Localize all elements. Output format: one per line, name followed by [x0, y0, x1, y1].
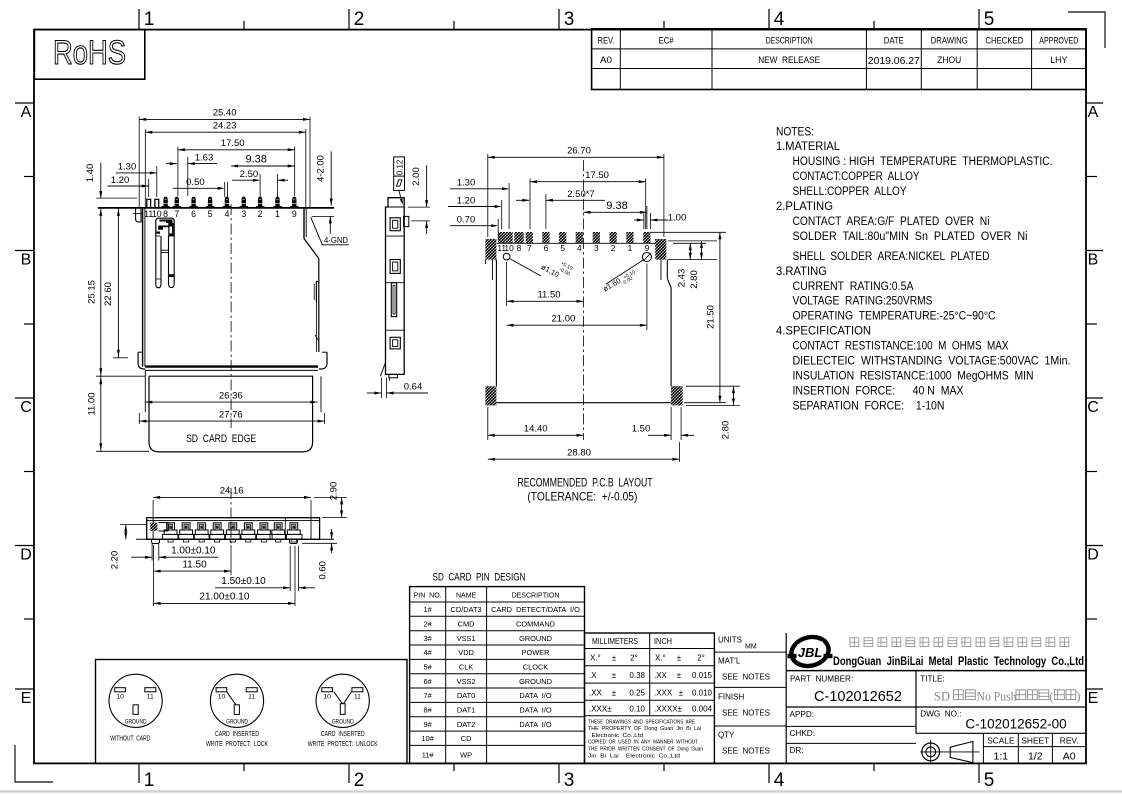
- svg-text:ZHOU: ZHOU: [937, 55, 961, 66]
- svg-text:WRITE PROTECT: UNLOCK: WRITE PROTECT: UNLOCK: [308, 739, 378, 748]
- svg-text:CHKD:: CHKD:: [790, 729, 815, 738]
- svg-text:1#: 1#: [423, 605, 432, 614]
- bottom dim 0.60: [302, 529, 337, 580]
- pcb layout caption: [518, 476, 653, 504]
- pcb dim 1.20: [448, 195, 502, 229]
- svg-text:24.16: 24.16: [220, 486, 244, 497]
- svg-text:JBL: JBL: [798, 645, 823, 660]
- pcb dim 11.50: [507, 262, 584, 306]
- svg-text:11.00: 11.00: [86, 392, 97, 415]
- svg-text:4: 4: [224, 209, 229, 219]
- svg-text:26.36: 26.36: [219, 390, 243, 401]
- switch circle 1: [210, 674, 263, 727]
- side view body: [380, 198, 408, 381]
- svg-text:MM: MM: [745, 644, 757, 651]
- svg-text:DAT1: DAT1: [457, 706, 475, 715]
- svg-text:THESE DRAWINGS AND SPECIFIC: THESE DRAWINGS AND SPECIFICATIONS ARE: [588, 719, 695, 725]
- svg-text:2.50*7: 2.50*7: [567, 189, 594, 200]
- svg-text:2.20: 2.20: [110, 551, 121, 570]
- svg-text:X.°: X.°: [655, 654, 666, 663]
- svg-text:±: ±: [677, 654, 682, 663]
- svg-text:0.015: 0.015: [692, 671, 713, 680]
- svg-text:SEPARATION FORCE: 1-10N: SEPARATION FORCE: 1-10N: [793, 398, 945, 412]
- svg-text:VDD: VDD: [458, 648, 474, 657]
- third angle projection symbol: [920, 740, 979, 763]
- svg-text:1: 1: [275, 209, 280, 219]
- svg-text:1.50: 1.50: [632, 424, 651, 435]
- svg-text:COMMAND: COMMAND: [516, 620, 555, 629]
- svg-text:CHECKED: CHECKED: [985, 35, 1023, 46]
- svg-text:DRAWING: DRAWING: [931, 35, 968, 46]
- svg-text:1: 1: [628, 243, 633, 253]
- svg-text:8#: 8#: [423, 706, 432, 715]
- svg-text:21.50: 21.50: [706, 305, 717, 329]
- svg-text:POWER: POWER: [522, 648, 550, 657]
- switch detail box: [96, 660, 408, 764]
- pcb dim 2.80 bottom: [686, 386, 740, 439]
- svg-text:CMD: CMD: [458, 620, 475, 629]
- svg-text:NAME: NAME: [456, 592, 477, 599]
- svg-text:7: 7: [174, 209, 179, 219]
- svg-text:0.38: 0.38: [629, 671, 645, 680]
- label 4-GND: [311, 217, 349, 245]
- units material finish qty column: [714, 633, 786, 763]
- svg-text:1.00: 1.00: [668, 213, 687, 224]
- svg-text:4-GND: 4-GND: [324, 235, 348, 245]
- svg-text:14.40: 14.40: [524, 424, 548, 435]
- svg-text:VOLTAGE RATING:250VRMS: VOLTAGE RATING:250VRMS: [793, 294, 933, 308]
- svg-text:GROUND: GROUND: [332, 719, 354, 726]
- svg-text:5: 5: [984, 9, 995, 30]
- svg-text:10: 10: [218, 693, 226, 700]
- svg-text:27.76: 27.76: [219, 409, 243, 420]
- svg-text:1.63: 1.63: [195, 152, 214, 163]
- dim 2.50 front: [232, 169, 288, 197]
- svg-text:INCH: INCH: [654, 637, 672, 646]
- svg-text:QTY: QTY: [718, 731, 735, 740]
- svg-text:E: E: [1088, 690, 1099, 707]
- svg-text:3: 3: [564, 770, 575, 791]
- svg-text:1:1: 1:1: [993, 751, 1008, 763]
- switch labels: [110, 729, 377, 748]
- svg-text:SHEET: SHEET: [1021, 736, 1049, 746]
- svg-text:4: 4: [774, 770, 785, 791]
- svg-text:C-102012652-00: C-102012652-00: [965, 717, 1066, 732]
- svg-text:10: 10: [323, 693, 331, 700]
- pcb dim 9.38: [584, 200, 647, 229]
- svg-text:A0: A0: [1063, 751, 1076, 763]
- svg-text:SEE NOTES: SEE NOTES: [722, 709, 770, 718]
- dim 17.50: [178, 138, 295, 196]
- svg-text:Electronic Co.,Ltd: Electronic Co.,Ltd: [588, 733, 643, 739]
- svg-text:FINISH: FINISH: [718, 693, 744, 702]
- svg-text:.XXX±: .XXX±: [589, 704, 612, 713]
- svg-text:A: A: [21, 104, 32, 121]
- svg-text:DIELECTEIC WITHSTANDING VOLT: DIELECTEIC WITHSTANDING VOLTAGE:500VAC 1…: [793, 354, 1071, 368]
- bottom dim 2.20: [110, 525, 148, 570]
- svg-text:PIN NO.: PIN NO.: [414, 592, 442, 599]
- pcb dim 28.80: [488, 442, 680, 462]
- bottom dim 24.16: [153, 486, 311, 517]
- svg-text:B: B: [21, 252, 32, 269]
- svg-text:6: 6: [191, 209, 196, 219]
- svg-text:25.40: 25.40: [213, 108, 237, 119]
- svg-text:3: 3: [241, 209, 246, 219]
- svg-text:E: E: [21, 690, 32, 707]
- svg-text:CONTACT RESTISTANCE:100 M O: CONTACT RESTISTANCE:100 M OHMS MAX: [793, 339, 1009, 353]
- svg-text:INSERTION FORCE: 40 N M: INSERTION FORCE: 40 N MAX: [793, 383, 964, 397]
- svg-text:TITLE:: TITLE:: [920, 675, 945, 684]
- svg-text:1.30: 1.30: [457, 178, 476, 189]
- bottom view body: [136, 518, 334, 540]
- svg-text:SD CARD EDGE: SD CARD EDGE: [186, 433, 256, 445]
- svg-text:17.50: 17.50: [585, 170, 609, 181]
- zone ticks and letters right: [1086, 103, 1103, 707]
- corner trim mark bottom-left: [15, 745, 53, 782]
- svg-text:GROUND: GROUND: [519, 634, 552, 643]
- svg-text:HOUSING : HIGH TEMPERATURE T: HOUSING : HIGH TEMPERATURE THERMOPLASTIC…: [793, 154, 1053, 168]
- dim 25.15: [87, 208, 103, 376]
- svg-text:4: 4: [577, 243, 582, 253]
- appd chkd dr cells: [786, 710, 916, 755]
- svg-text:PART NUMBER:: PART NUMBER:: [790, 675, 853, 684]
- svg-text:21.00: 21.00: [552, 313, 576, 324]
- svg-text:4: 4: [774, 9, 785, 30]
- svg-text:GROUND: GROUND: [519, 677, 552, 686]
- svg-text:25.15: 25.15: [87, 280, 98, 304]
- dim 1.63: [166, 152, 217, 196]
- switch circle 2: [316, 674, 369, 727]
- svg-text:CONTACT:COPPER ALLOY: CONTACT:COPPER ALLOY: [793, 169, 920, 183]
- svg-text:COPIED OR USED IN ANY MAN: COPIED OR USED IN ANY MANNER WITHOUT: [588, 740, 698, 746]
- pcb hole 1.60 with leader: [601, 253, 651, 294]
- svg-text:B: B: [1088, 252, 1099, 269]
- svg-text:2°: 2°: [697, 654, 705, 663]
- svg-text:±: ±: [612, 688, 617, 697]
- pcb dim 2.80 top: [668, 241, 717, 289]
- svg-text:GROUND: GROUND: [125, 719, 147, 726]
- svg-text:9: 9: [645, 243, 650, 253]
- svg-text:1.40: 1.40: [85, 164, 96, 183]
- title block company header: [786, 633, 1086, 670]
- front view center line: [230, 204, 232, 428]
- svg-text:11.50: 11.50: [182, 559, 207, 570]
- pcb layout pads row: [497, 232, 656, 253]
- svg-text:1.20: 1.20: [457, 195, 476, 206]
- svg-text:5: 5: [208, 209, 213, 219]
- svg-text:SEE NOTES: SEE NOTES: [722, 747, 770, 756]
- zone ticks and numerals top: [139, 9, 994, 30]
- svg-text:CARD INSERTED: CARD INSERTED: [321, 729, 365, 738]
- svg-text:10#: 10#: [421, 734, 434, 743]
- svg-text:.X: .X: [589, 671, 597, 680]
- svg-text:2.43: 2.43: [677, 269, 688, 288]
- svg-text:No Push: No Push: [977, 690, 1018, 704]
- svg-text:26.70: 26.70: [567, 145, 591, 156]
- svg-text:LHY: LHY: [1050, 55, 1068, 66]
- svg-text:(TOLERANCE: +/-0.05): (TOLERANCE: +/-0.05): [527, 490, 637, 504]
- svg-text:EC#: EC#: [659, 35, 675, 46]
- svg-text:3: 3: [594, 243, 599, 253]
- svg-text:0.50: 0.50: [186, 177, 205, 188]
- svg-text:2#: 2#: [423, 620, 432, 629]
- svg-text:1.30: 1.30: [118, 162, 137, 173]
- svg-text:.XX: .XX: [589, 688, 603, 697]
- pcb dim 2.50*7: [516, 189, 605, 229]
- svg-text:10: 10: [152, 209, 162, 219]
- svg-text:THE PROPERTY OF Dong Guan: THE PROPERTY OF Dong Guan Jin Bi Lai: [588, 726, 701, 732]
- bottom view mounting feet: [152, 539, 298, 543]
- svg-text:9: 9: [292, 209, 297, 219]
- dim 0.50: [173, 177, 228, 197]
- svg-text:DATA I/O: DATA I/O: [519, 691, 551, 700]
- svg-text:6#: 6#: [423, 677, 432, 686]
- dim 25.40: [139, 108, 310, 208]
- side view flatness control frame: [394, 157, 405, 205]
- svg-text:VSS1: VSS1: [457, 634, 476, 643]
- pcb dim 21.50: [650, 232, 726, 402]
- front view card detect spring contacts: [156, 218, 174, 288]
- svg-text:1.00±0.10: 1.00±0.10: [171, 545, 216, 556]
- svg-text:RECOMMENDED P.C.B LAYOUT: RECOMMENDED P.C.B LAYOUT: [518, 476, 653, 490]
- bottom view contact feet: [162, 523, 302, 542]
- svg-text:6: 6: [544, 243, 549, 253]
- svg-text:11: 11: [147, 693, 154, 700]
- svg-text:THE PRIOR WRITTEN CONSENT: THE PRIOR WRITTEN CONSENT OF Dong Guan: [588, 747, 703, 753]
- svg-text:9.38: 9.38: [245, 153, 266, 165]
- pcb dim 26.70: [488, 145, 664, 237]
- svg-text:NEW RELEASE: NEW RELEASE: [758, 55, 820, 66]
- svg-text:VSS2: VSS2: [457, 677, 476, 686]
- pcb layout corner pads: [485, 239, 682, 405]
- part number cell: [786, 671, 1086, 734]
- dim 1.30 front: [116, 162, 157, 197]
- pcb dim 1.30: [450, 178, 509, 229]
- svg-text:CD/DAT3: CD/DAT3: [451, 605, 482, 614]
- svg-text:3: 3: [564, 9, 575, 30]
- svg-text:1: 1: [144, 770, 155, 791]
- svg-text:1.20: 1.20: [111, 175, 130, 186]
- pcb dim 1.50: [632, 407, 694, 440]
- dim 11.00: [86, 376, 149, 451]
- svg-text:DATA I/O: DATA I/O: [519, 720, 551, 729]
- svg-text:17.50: 17.50: [221, 138, 245, 149]
- dim 24.23: [145, 121, 305, 208]
- svg-text:0.70: 0.70: [457, 215, 476, 226]
- pcb dim 2.43: [673, 243, 706, 287]
- svg-text:8: 8: [163, 209, 168, 219]
- svg-text:0.10: 0.10: [629, 704, 645, 713]
- svg-text:CLK: CLK: [459, 663, 473, 672]
- svg-text:(: (: [1049, 690, 1053, 704]
- svg-text:DESCRIPTION: DESCRIPTION: [512, 592, 560, 599]
- dim 22.60: [103, 208, 128, 358]
- svg-text:INSULATION RESISTANCE:1000 M: INSULATION RESISTANCE:1000 MegOHMS MIN: [793, 369, 1034, 383]
- svg-text:4-2.00: 4-2.00: [316, 155, 327, 182]
- front view pins: [144, 197, 298, 219]
- svg-text:CARD DETECT/DATA I/O: CARD DETECT/DATA I/O: [491, 605, 580, 614]
- svg-text:MAT'L: MAT'L: [718, 657, 741, 666]
- svg-text:5: 5: [560, 243, 565, 253]
- svg-text:8: 8: [517, 243, 522, 253]
- corner trim mark top-right: [1068, 12, 1105, 48]
- svg-text:X.°: X.°: [590, 654, 601, 663]
- svg-text:D: D: [1087, 547, 1099, 564]
- dim 4-2.00: [312, 151, 334, 233]
- svg-text:2: 2: [354, 9, 365, 30]
- svg-text:REV.: REV.: [1060, 736, 1079, 746]
- svg-text:.XX: .XX: [654, 671, 668, 680]
- svg-text:SEE NOTES: SEE NOTES: [722, 673, 770, 682]
- svg-text:±: ±: [612, 671, 617, 680]
- svg-text:): ): [1076, 690, 1080, 704]
- svg-text:.XXXX±: .XXXX±: [654, 704, 683, 713]
- svg-text:C: C: [20, 399, 32, 416]
- svg-text:2: 2: [611, 243, 616, 253]
- svg-text:CURRENT RATING:0.5A: CURRENT RATING:0.5A: [793, 279, 915, 293]
- svg-text:RoHS: RoHS: [53, 34, 126, 72]
- svg-text:MILLIMETERS: MILLIMETERS: [592, 637, 638, 646]
- svg-text:SD CARD PIN DESIGN: SD CARD PIN DESIGN: [433, 572, 526, 584]
- svg-text:21.00±0.10: 21.00±0.10: [199, 592, 249, 603]
- svg-text:2°: 2°: [630, 654, 638, 663]
- svg-text:WRITE PROTECT: LOCK: WRITE PROTECT: LOCK: [206, 739, 268, 748]
- bottom dim 21.00: [154, 546, 295, 606]
- dim 1.20 front: [108, 175, 149, 197]
- svg-text:4.SPECIFICATION: 4.SPECIFICATION: [776, 324, 871, 338]
- svg-text:WP: WP: [460, 750, 472, 759]
- svg-text:±: ±: [679, 688, 684, 697]
- svg-text:3.RATING: 3.RATING: [776, 264, 827, 278]
- revision table: [592, 29, 1086, 90]
- svg-text:3#: 3#: [423, 634, 432, 643]
- svg-text:DATE: DATE: [884, 35, 904, 46]
- pcb dim 1.00: [634, 213, 686, 230]
- svg-text:11.50: 11.50: [537, 290, 560, 301]
- svg-text:CONTACT AREA:G/F PLATED OVE: CONTACT AREA:G/F PLATED OVER Ni: [793, 214, 990, 228]
- dwg no cell: [916, 710, 1086, 734]
- pcb layout body outline: [485, 260, 671, 403]
- svg-text:C: C: [1087, 399, 1099, 416]
- svg-text:CD: CD: [461, 734, 472, 743]
- svg-text:0.010: 0.010: [692, 688, 713, 697]
- pcb hole 1.10 with leader: [503, 253, 573, 279]
- svg-text:Jin Bi Lai Electronic Co: Jin Bi Lai Electronic Co.,Ltd: [588, 753, 680, 759]
- svg-text:0.25: 0.25: [629, 688, 645, 697]
- svg-text:7#: 7#: [423, 691, 432, 700]
- svg-text:2.PLATING: 2.PLATING: [776, 199, 833, 213]
- svg-text:1.50±0.10: 1.50±0.10: [221, 576, 266, 587]
- pcb layout center line: [583, 160, 585, 440]
- svg-text:2: 2: [354, 770, 365, 791]
- pcb dim 14.40: [488, 407, 584, 440]
- svg-text:DATA I/O: DATA I/O: [519, 706, 551, 715]
- bottom view center line: [230, 488, 232, 545]
- svg-text:GROUND: GROUND: [226, 719, 248, 726]
- svg-text:CARD INSERTED: CARD INSERTED: [215, 729, 259, 738]
- svg-text:APPD:: APPD:: [790, 710, 815, 719]
- switch circle 0: [109, 674, 162, 727]
- svg-text:REV.: REV.: [598, 35, 615, 46]
- svg-text:1/2: 1/2: [1028, 751, 1043, 763]
- svg-text:SHELL:COPPER ALLOY: SHELL:COPPER ALLOY: [793, 184, 907, 198]
- svg-text:10: 10: [504, 243, 514, 253]
- svg-text:UNITS: UNITS: [718, 636, 742, 645]
- svg-text:0.64: 0.64: [404, 382, 423, 393]
- bottom dim 11.50: [154, 545, 231, 575]
- pcb dim 17.50: [530, 170, 646, 229]
- dim 9.38 front: [231, 153, 295, 167]
- svg-text:DongGuan JinBiLai Metal Pla: DongGuan JinBiLai Metal Plastic Technolo…: [833, 654, 1084, 668]
- dim 1.40: [85, 163, 137, 199]
- svg-text:DAT2: DAT2: [457, 720, 475, 729]
- screenshot bottom gray strip: [0, 790, 1122, 792]
- svg-text:A: A: [1088, 104, 1099, 121]
- svg-text:C-102012652: C-102012652: [814, 689, 902, 705]
- svg-text:9#: 9#: [423, 720, 432, 729]
- svg-text:SCALE: SCALE: [987, 736, 1015, 746]
- svg-text:2.50: 2.50: [240, 169, 259, 180]
- svg-text:DESCRIPTION: DESCRIPTION: [766, 35, 813, 46]
- RoHS box: [34, 30, 144, 80]
- side view dim 2.00: [408, 165, 430, 234]
- svg-text:0.60: 0.60: [318, 561, 329, 580]
- svg-text:WITHOUT CARD: WITHOUT CARD: [110, 733, 150, 742]
- svg-text:7: 7: [527, 243, 532, 253]
- svg-text:APPROVED: APPROVED: [1039, 35, 1078, 46]
- svg-text:11: 11: [354, 693, 361, 700]
- svg-text:±: ±: [677, 671, 682, 680]
- svg-text:SHELL SOLDER AREA:NICKEL PL: SHELL SOLDER AREA:NICKEL PLATED: [793, 249, 990, 263]
- title cell: [920, 675, 1080, 704]
- pcb dim 21.00: [507, 264, 647, 331]
- svg-text:DR:: DR:: [790, 746, 804, 755]
- svg-text:DWG NO.:: DWG NO.:: [920, 710, 961, 719]
- svg-text:24.23: 24.23: [213, 121, 237, 132]
- front view connector body: [98, 208, 334, 412]
- svg-text:10: 10: [116, 693, 124, 700]
- svg-text:5#: 5#: [423, 663, 432, 672]
- svg-text:1: 1: [144, 9, 155, 30]
- svg-text:SD: SD: [934, 690, 950, 704]
- side view dim 0.64: [367, 378, 428, 398]
- svg-text:1.MATERIAL: 1.MATERIAL: [776, 139, 840, 153]
- bottom dim 2.90: [314, 482, 347, 518]
- tolerance table: [585, 633, 715, 763]
- svg-text:9.38: 9.38: [606, 200, 627, 212]
- svg-text:.XXX: .XXX: [654, 688, 673, 697]
- zone ticks and letters left: [15, 103, 34, 707]
- svg-text:NOTES:: NOTES:: [776, 124, 814, 138]
- svg-text:DAT0: DAT0: [457, 691, 475, 700]
- svg-text:A0: A0: [600, 55, 612, 66]
- svg-text:OPERATING TEMPERATURE:-25°C~9: OPERATING TEMPERATURE:-25°C~90°C: [793, 309, 996, 323]
- svg-text:±: ±: [612, 654, 617, 663]
- svg-text:11#: 11#: [422, 750, 435, 759]
- notes text block: [776, 124, 1071, 412]
- scale sheet rev cells: [983, 733, 1086, 763]
- bottom dim 1.50: [215, 546, 315, 591]
- svg-text:28.80: 28.80: [567, 447, 591, 458]
- bottom dim 1.00: [131, 544, 218, 561]
- svg-text:22.60: 22.60: [103, 282, 114, 306]
- svg-text:0.12: 0.12: [395, 159, 404, 175]
- svg-text:SOLDER TAIL:80u"MIN Sn PLAT: SOLDER TAIL:80u"MIN Sn PLATED OVER Ni: [793, 229, 1028, 243]
- svg-text:11: 11: [248, 693, 255, 700]
- svg-text:0.004: 0.004: [692, 704, 713, 713]
- SD card edge outline: [149, 376, 313, 452]
- dim 27.76: [139, 409, 324, 424]
